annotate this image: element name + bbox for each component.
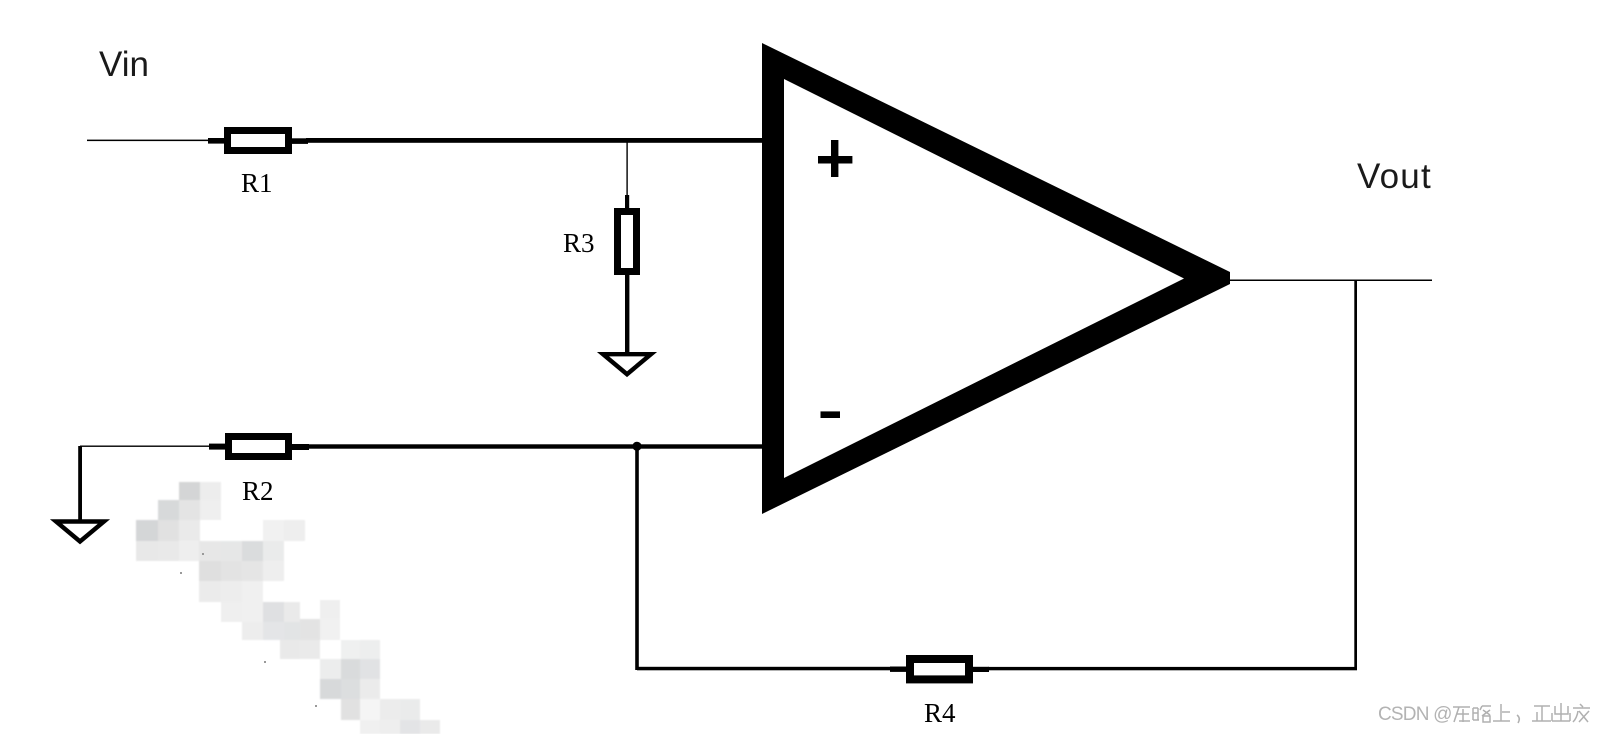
wire: [78, 446, 82, 520]
wire: [306, 138, 763, 143]
wire: [307, 444, 763, 448]
wire: [80, 446, 209, 447]
svg-text:R2: R2: [242, 476, 274, 506]
wire: [988, 667, 1357, 670]
resistor R2: [209, 437, 309, 507]
wire: [626, 142, 627, 197]
ground: [56, 522, 104, 542]
wire: [1354, 280, 1357, 670]
resistor R1: [208, 131, 308, 199]
svg-text:R3: R3: [563, 228, 595, 258]
wire: [1230, 280, 1432, 282]
svg-text:Vin: Vin: [99, 45, 149, 84]
svg-text:R4: R4: [924, 698, 956, 728]
svg-text:Vout: Vout: [1357, 157, 1432, 196]
wire: [635, 448, 639, 670]
node junction: [632, 442, 641, 451]
ground: [603, 354, 651, 374]
svg-text:R1: R1: [241, 168, 273, 198]
wire: [625, 275, 629, 354]
resistor R3: [563, 195, 637, 272]
wire: [637, 667, 890, 671]
svg-text:CSDN @: CSDN @: [1378, 704, 1452, 725]
wire: [87, 140, 208, 142]
resistor R4: [890, 659, 989, 728]
op-amp U1: [762, 43, 1230, 514]
